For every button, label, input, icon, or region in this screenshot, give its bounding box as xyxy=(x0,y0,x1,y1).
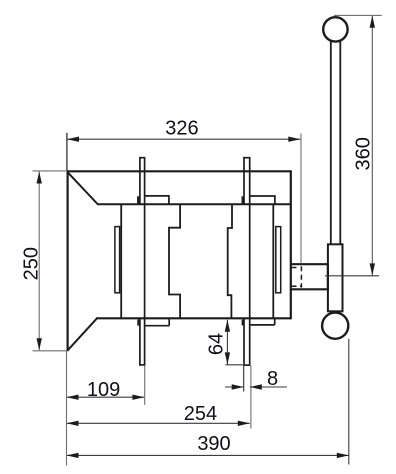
pole 2 block right edge xyxy=(272,204,274,318)
dim line 109 xyxy=(67,396,145,398)
extension line right of dim 326 xyxy=(300,134,302,264)
svg-text:390: 390 xyxy=(197,433,230,455)
dim line 64 xyxy=(226,320,228,365)
arrowhead 8 right pointing left xyxy=(250,384,262,389)
svg-text:250: 250 xyxy=(21,247,43,280)
dim line 250 xyxy=(38,172,40,351)
extension line right of dim 109 xyxy=(144,366,146,406)
extension line left of dim 326 xyxy=(66,133,68,171)
post 1 top clamp xyxy=(137,196,140,204)
arrowhead 254 left xyxy=(67,421,79,426)
centre gap right stepped profile xyxy=(228,204,232,318)
dim line 254 xyxy=(67,422,250,424)
extension line right of dim 390 xyxy=(348,339,350,465)
left bracket plate xyxy=(115,227,120,293)
arrowhead 390 left xyxy=(67,453,79,458)
body top diagonal xyxy=(68,172,98,204)
body top edge xyxy=(67,170,292,172)
arrowhead 64 top xyxy=(225,320,230,332)
extension line bottom of dim 250 xyxy=(33,350,67,352)
extension line top of dim 360 xyxy=(334,14,382,16)
terminal post 2 bottom cap xyxy=(244,364,251,366)
arrowhead 360 top xyxy=(370,16,375,28)
terminal post 2 right line xyxy=(249,158,251,366)
post 2 bottom bar xyxy=(250,319,275,325)
right bracket plate xyxy=(276,227,281,293)
extension line top of dim 250 xyxy=(33,170,67,172)
dim line 360 xyxy=(371,16,373,276)
dim line 390 xyxy=(67,454,349,456)
body bottom diagonal xyxy=(68,319,97,350)
svg-text:360: 360 xyxy=(352,137,374,170)
post 2 top clamp xyxy=(242,196,245,204)
extension line bottom of dim 64 xyxy=(226,364,251,366)
arrowhead 360 bottom xyxy=(370,263,375,275)
handle sleeve xyxy=(328,244,343,311)
body bottom edge xyxy=(96,317,291,319)
arrowhead 109 left xyxy=(67,395,79,400)
body left plate edge xyxy=(66,170,68,351)
svg-text:326: 326 xyxy=(165,118,198,140)
terminal post 1 right line xyxy=(144,158,146,365)
post 1 top bar xyxy=(145,196,169,204)
handle upper ball xyxy=(323,17,347,41)
arrowhead 254 right xyxy=(238,421,250,426)
arrowhead 326 right xyxy=(288,137,300,142)
post 1 bottom bar xyxy=(145,319,170,326)
leader line bottom of dim 360 xyxy=(325,275,379,277)
arrowhead 64 bottom xyxy=(225,352,230,364)
body right edge xyxy=(290,170,292,319)
pole 1 block left edge xyxy=(120,204,122,318)
body inner top line xyxy=(97,203,290,205)
dim line 8 right segment xyxy=(250,386,287,388)
hidden square shaft dashed xyxy=(292,266,302,287)
terminal post 1 bottom cap xyxy=(139,364,145,366)
post 2 bottom clamp xyxy=(242,320,244,326)
shaft hub boss xyxy=(291,264,328,289)
post 1 bottom clamp xyxy=(137,320,140,326)
post 2 top bar xyxy=(250,196,275,204)
svg-text:64: 64 xyxy=(205,333,227,355)
handle shaft xyxy=(331,40,341,244)
arrowhead 326 left xyxy=(67,137,79,142)
centre gap left stepped profile xyxy=(169,204,180,318)
extension line right of dim 254 xyxy=(250,366,252,429)
extension line left of dim 8 xyxy=(243,366,245,392)
terminal post 1 top cap xyxy=(139,157,145,159)
terminal post 2 left line xyxy=(243,158,245,366)
handle lower ball xyxy=(322,313,348,339)
arrowhead 250 top xyxy=(37,172,42,184)
extension line left bottom of dims xyxy=(66,351,68,465)
arrowhead 390 right xyxy=(337,453,349,458)
svg-text:109: 109 xyxy=(87,379,120,401)
dim line 8 left segment xyxy=(225,386,244,388)
arrowhead 109 right xyxy=(132,395,144,400)
svg-text:8: 8 xyxy=(267,368,278,390)
arrowhead 8 left pointing right xyxy=(232,384,244,389)
dim line 326 xyxy=(67,138,300,140)
terminal post 2 top cap xyxy=(243,157,250,159)
terminal post 1 left line xyxy=(139,158,141,365)
arrowhead 250 bottom xyxy=(37,338,42,350)
svg-text:254: 254 xyxy=(184,403,217,425)
